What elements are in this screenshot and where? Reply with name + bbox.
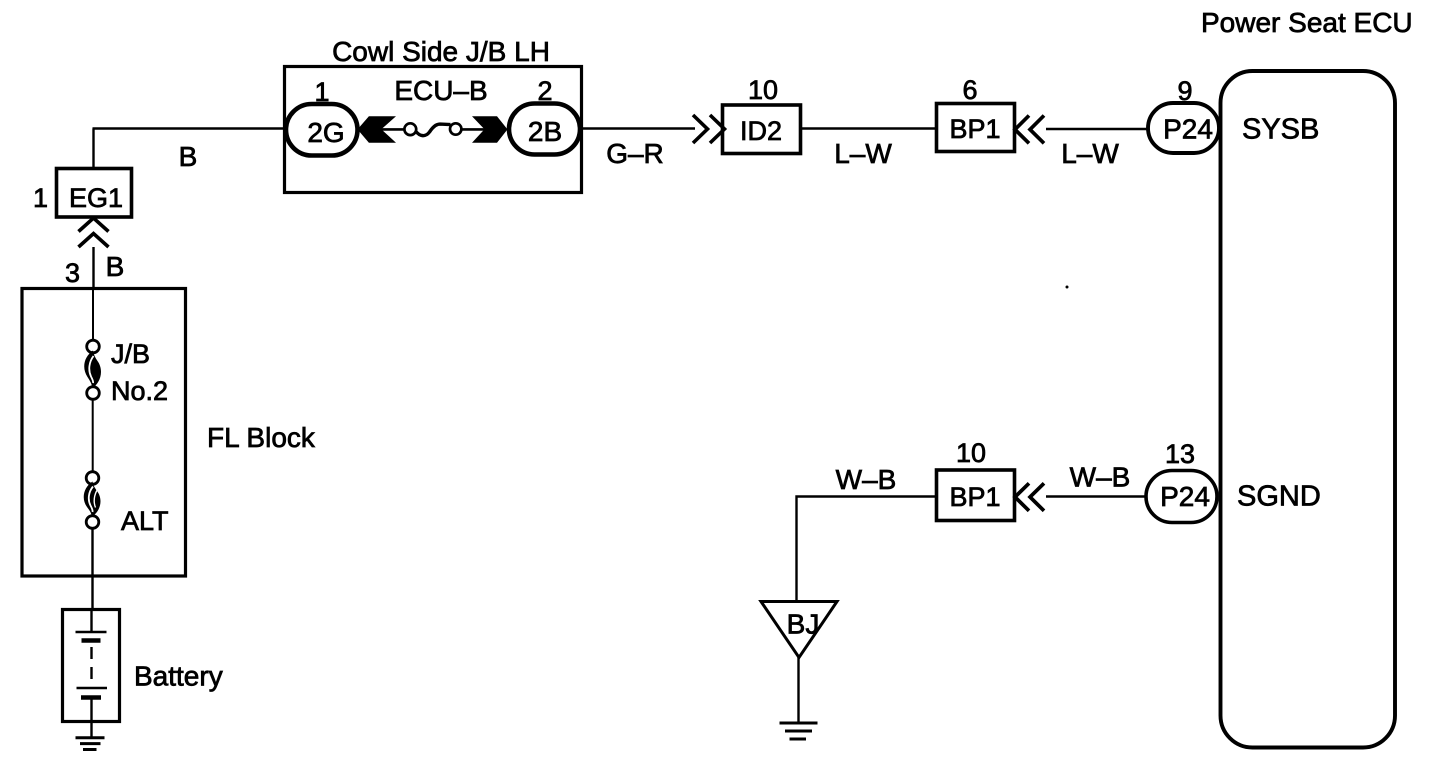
battery negative plate <box>77 687 108 690</box>
svg-text:B: B <box>106 251 125 282</box>
wire L-W from ID2 to BP1 <box>800 127 937 129</box>
wire W-B from chevrons to P24 <box>1046 495 1150 497</box>
svg-text:3: 3 <box>65 258 80 288</box>
svg-text:EG1: EG1 <box>69 183 123 213</box>
svg-text:P24: P24 <box>1163 114 1213 145</box>
fusible link J/B No.2 <box>84 340 101 399</box>
svg-text:P24: P24 <box>1160 481 1210 512</box>
fuse element circles and wave <box>404 123 416 135</box>
svg-text:2B: 2B <box>528 116 562 147</box>
svg-text:No.2: No.2 <box>111 376 168 406</box>
fuse wire left <box>380 128 406 131</box>
svg-text:B: B <box>179 141 198 172</box>
svg-text:BJ: BJ <box>787 609 820 640</box>
splice chevrons pointing left at lower BP1 <box>1015 483 1044 511</box>
wire B from EG1 up to junction <box>92 129 94 168</box>
svg-text:10: 10 <box>748 75 778 105</box>
connector oval P24 pin 13 <box>1146 471 1217 523</box>
splice chevrons pointing right into ID2 <box>693 115 725 143</box>
splice chevrons pointing left at BP1 <box>1015 116 1044 144</box>
battery dashed center line <box>90 647 92 683</box>
svg-text:FL Block: FL Block <box>207 422 316 453</box>
battery bottom wire to ground <box>90 698 92 738</box>
fusible link ALT <box>84 472 101 529</box>
fuse wire right <box>461 128 486 131</box>
svg-text:BP1: BP1 <box>949 114 1000 144</box>
wire from BJ to ground <box>797 657 799 722</box>
svg-text:10: 10 <box>956 438 986 468</box>
svg-text:L–W: L–W <box>1061 138 1119 169</box>
fuse ECU-B left arrow <box>358 116 397 143</box>
svg-text:ID2: ID2 <box>740 116 782 146</box>
wire L-W from chevrons to P24 <box>1046 128 1150 130</box>
Power Seat ECU box <box>1221 71 1396 748</box>
svg-text:Battery: Battery <box>134 661 223 692</box>
svg-text:SGND: SGND <box>1237 481 1321 513</box>
FL Block box <box>22 289 186 577</box>
wire from ALT fuse to battery <box>91 528 93 610</box>
svg-text:BP1: BP1 <box>949 482 1000 512</box>
battery internal wire top <box>90 609 92 632</box>
svg-text:2G: 2G <box>307 117 344 148</box>
fuse ECU-B right arrow <box>472 116 508 143</box>
connector ID2 box <box>723 105 801 154</box>
svg-text:L–W: L–W <box>834 138 892 169</box>
connector EG1 pin 1 box <box>57 169 132 218</box>
svg-text:J/B: J/B <box>111 339 150 369</box>
scan speck <box>1066 286 1069 289</box>
svg-text:9: 9 <box>1177 76 1192 106</box>
battery positive plate <box>76 631 107 634</box>
svg-text:Cowl Side J/B LH: Cowl Side J/B LH <box>332 36 550 67</box>
ground symbol below BJ <box>780 723 818 739</box>
svg-text:SYSB: SYSB <box>1242 114 1319 146</box>
svg-text:6: 6 <box>962 75 977 105</box>
svg-text:W–B: W–B <box>836 464 897 495</box>
connector BP1 pin 6 box <box>937 104 1015 152</box>
battery box <box>63 610 120 722</box>
wire W-B from BJ up and right to BP1 <box>797 497 938 602</box>
svg-text:W–B: W–B <box>1070 462 1131 493</box>
connector oval 2B <box>509 104 580 155</box>
svg-text:ECU–B: ECU–B <box>394 75 487 106</box>
wire G-R from 2B to ID2 <box>579 127 695 129</box>
splice chevron arrows below EG1 <box>79 218 109 247</box>
wire B horizontal to connector 2G <box>93 127 301 129</box>
svg-text:ALT: ALT <box>121 506 169 536</box>
wire between fuses <box>92 399 94 472</box>
Cowl Side J/B box <box>285 67 582 193</box>
ground symbol below battery <box>76 738 105 750</box>
wire B from chevrons down to FL block <box>92 247 94 290</box>
svg-text:13: 13 <box>1165 439 1195 469</box>
connector BP1 pin 10 box <box>937 470 1015 521</box>
svg-text:Power Seat ECU: Power Seat ECU <box>1201 7 1413 38</box>
ground junction BJ triangle <box>761 602 837 658</box>
wire inside FL block to fuse J/B No.2 <box>92 288 94 341</box>
svg-text:G–R: G–R <box>606 138 664 169</box>
connector oval P24 pin 9 <box>1148 103 1219 153</box>
connector oval 2G <box>286 104 358 156</box>
svg-text:1: 1 <box>33 183 48 213</box>
